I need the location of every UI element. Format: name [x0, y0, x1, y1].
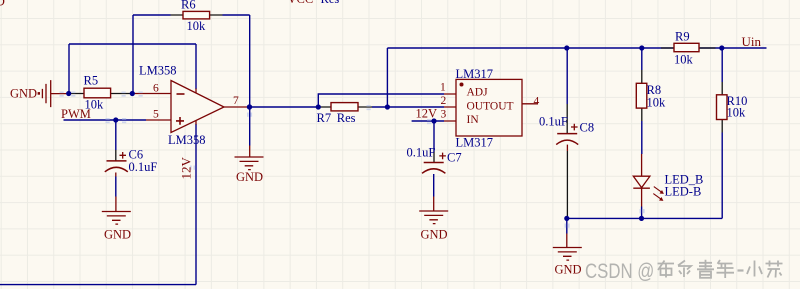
svg-text:4: 4: [534, 96, 540, 108]
svg-text:LM317: LM317: [456, 136, 494, 150]
svg-text:R9: R9: [675, 30, 690, 44]
svg-text:C8: C8: [580, 121, 595, 135]
svg-text:R5: R5: [84, 74, 99, 88]
svg-text:C7: C7: [447, 151, 462, 165]
svg-text:3: 3: [441, 109, 447, 121]
svg-text:12V: 12V: [416, 107, 438, 121]
svg-text:Res: Res: [321, 0, 340, 6]
svg-text:D: D: [0, 0, 5, 9]
svg-text:7: 7: [233, 95, 239, 107]
svg-text:10k: 10k: [187, 19, 207, 33]
svg-text:LED-B: LED-B: [665, 185, 702, 199]
svg-text:1: 1: [440, 82, 446, 94]
svg-text:GND: GND: [421, 228, 448, 242]
svg-text:CSDN @: CSDN @: [585, 260, 654, 283]
svg-text:GND: GND: [555, 263, 582, 277]
svg-text:GND: GND: [104, 228, 131, 242]
svg-text:R7: R7: [317, 111, 332, 125]
svg-text:5: 5: [153, 109, 159, 121]
svg-text:LM358: LM358: [168, 133, 206, 147]
svg-text:10k: 10k: [674, 53, 694, 67]
svg-text:LM317: LM317: [456, 67, 494, 81]
svg-text:10k: 10k: [727, 106, 747, 120]
svg-text:0.1uF: 0.1uF: [407, 146, 436, 160]
svg-text:GND: GND: [236, 170, 263, 184]
svg-text:2: 2: [441, 95, 447, 107]
svg-text:ADJ: ADJ: [467, 87, 489, 99]
svg-text:Res: Res: [337, 111, 356, 125]
svg-text:VCC: VCC: [288, 0, 314, 6]
svg-text:GND: GND: [10, 86, 37, 100]
svg-text:PWM: PWM: [61, 107, 91, 121]
svg-text:0.1uF: 0.1uF: [539, 115, 568, 129]
svg-text:R6: R6: [181, 0, 196, 12]
svg-text:0.1uF: 0.1uF: [129, 160, 158, 174]
svg-text:OUTOUT: OUTOUT: [467, 101, 514, 113]
svg-text:LM358: LM358: [139, 64, 177, 78]
svg-text:10k: 10k: [647, 96, 667, 110]
svg-text:Uin: Uin: [742, 34, 762, 49]
svg-text:6: 6: [153, 83, 159, 95]
svg-text:12V: 12V: [179, 157, 194, 180]
svg-text:IN: IN: [467, 114, 480, 126]
